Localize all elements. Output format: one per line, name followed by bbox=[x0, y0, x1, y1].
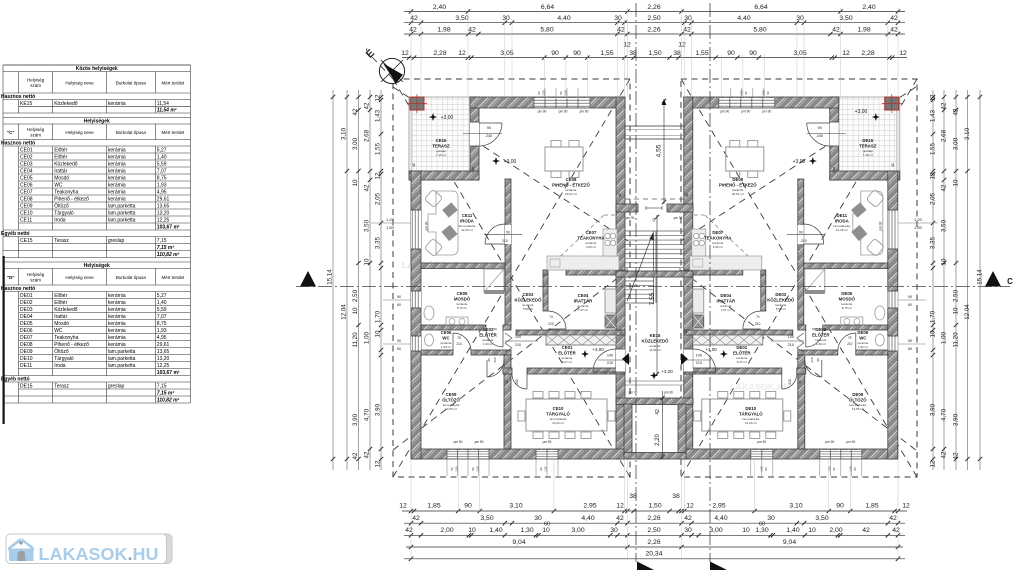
svg-text:Mosdó: Mosdó bbox=[54, 175, 69, 181]
svg-text:1,40: 1,40 bbox=[786, 527, 799, 534]
svg-text:9,04: 9,04 bbox=[512, 539, 525, 546]
svg-text:42: 42 bbox=[468, 26, 476, 33]
svg-text:210: 210 bbox=[456, 342, 462, 346]
internal dim 2,20 bbox=[662, 391, 664, 459]
svg-text:Pihenő - étkező: Pihenő - étkező bbox=[54, 342, 89, 348]
staircase bbox=[626, 230, 684, 232]
svg-text:3,00: 3,00 bbox=[352, 137, 359, 150]
svg-text:90: 90 bbox=[573, 50, 581, 57]
shower D bbox=[805, 269, 825, 292]
svg-text:90: 90 bbox=[727, 50, 735, 57]
svg-text:60: 60 bbox=[908, 303, 912, 307]
level mark +3,00 C living bbox=[492, 157, 500, 165]
svg-text:CE11: CE11 bbox=[20, 217, 32, 223]
wc bowl D bbox=[875, 334, 884, 346]
svg-text:1,70: 1,70 bbox=[930, 310, 937, 323]
svg-text:1,30: 1,30 bbox=[827, 466, 831, 472]
svg-text:DE03: DE03 bbox=[775, 292, 786, 297]
entry door panels (black) bbox=[622, 353, 629, 365]
table: helyiségek D title bbox=[2, 262, 4, 269]
svg-text:3,10: 3,10 bbox=[509, 503, 522, 510]
svg-text:4,40: 4,40 bbox=[581, 515, 594, 522]
svg-text:10: 10 bbox=[468, 527, 476, 534]
svg-text:KE15: KE15 bbox=[650, 333, 661, 338]
svg-text:90: 90 bbox=[397, 339, 401, 343]
svg-text:3,35: 3,35 bbox=[930, 236, 937, 249]
roof diagonal lines unit D bbox=[681, 79, 917, 477]
svg-text:13,65 m²: 13,65 m² bbox=[852, 407, 864, 411]
svg-text:11,54 m²: 11,54 m² bbox=[157, 108, 177, 114]
wall: C wc south bbox=[421, 350, 453, 355]
svg-text:12: 12 bbox=[458, 50, 466, 57]
svg-text:10: 10 bbox=[375, 330, 382, 337]
svg-text:210: 210 bbox=[493, 357, 497, 362]
svg-text:7,07 m²: 7,07 m² bbox=[578, 308, 588, 312]
svg-text:1,40: 1,40 bbox=[157, 300, 167, 306]
svg-text:7,07: 7,07 bbox=[157, 314, 167, 320]
dimension row B3 bbox=[404, 534, 905, 536]
svg-text:pm 90: pm 90 bbox=[475, 440, 484, 444]
svg-text:42: 42 bbox=[862, 527, 870, 534]
svg-text:pm 90: pm 90 bbox=[580, 110, 589, 114]
middle bridge (canopy between units) bbox=[625, 126, 684, 139]
svg-text:60: 60 bbox=[678, 268, 682, 272]
dimension row B5 bbox=[404, 558, 905, 560]
svg-text:13,65: 13,65 bbox=[157, 349, 170, 355]
svg-text:1,55: 1,55 bbox=[930, 142, 937, 155]
svg-text:kerámia: kerámia bbox=[108, 168, 126, 174]
svg-text:lam.parketta: lam.parketta bbox=[108, 356, 136, 362]
svg-text:CE01: CE01 bbox=[20, 147, 33, 153]
svg-text:2,40: 2,40 bbox=[862, 4, 875, 11]
svg-text:greslap: greslap bbox=[108, 383, 125, 389]
svg-text:3,00: 3,00 bbox=[953, 137, 960, 150]
svg-text:ELŐTÉR: ELŐTÉR bbox=[812, 333, 830, 338]
svg-text:12: 12 bbox=[375, 94, 382, 101]
svg-text:Egyéb nettó: Egyéb nettó bbox=[1, 377, 30, 383]
svg-text:Helyiségek: Helyiségek bbox=[84, 119, 110, 125]
wall: unit D inner exterior (stair side) bbox=[684, 97, 693, 459]
dimension row T1 bbox=[404, 11, 905, 13]
svg-text:1,40: 1,40 bbox=[489, 527, 502, 534]
svg-text:10: 10 bbox=[742, 527, 750, 534]
svg-text:90: 90 bbox=[487, 126, 491, 130]
svg-text:1,93 m²: 1,93 m² bbox=[441, 345, 451, 349]
svg-text:210: 210 bbox=[607, 361, 613, 365]
door: wc D bbox=[855, 333, 857, 351]
level mark +3,00 C entry bbox=[581, 350, 589, 358]
wall: D wc south bbox=[856, 350, 888, 355]
svg-text:75: 75 bbox=[457, 336, 461, 340]
svg-text:90: 90 bbox=[812, 327, 816, 331]
svg-text:CE03: CE03 bbox=[20, 161, 33, 167]
svg-text:CE05: CE05 bbox=[457, 291, 468, 296]
svg-text:1,85: 1,85 bbox=[427, 503, 440, 510]
svg-text:5,27: 5,27 bbox=[157, 147, 167, 153]
svg-text:4,95 m²: 4,95 m² bbox=[713, 245, 723, 249]
dimension row B2 bbox=[404, 522, 905, 524]
svg-text:90: 90 bbox=[471, 467, 475, 471]
svg-text:1,40 m²: 1,40 m² bbox=[816, 342, 826, 346]
svg-text:1,50: 1,50 bbox=[761, 90, 765, 96]
svg-text:2,05: 2,05 bbox=[930, 192, 937, 205]
svg-text:12: 12 bbox=[678, 42, 686, 49]
svg-text:Hasznos nettó: Hasznos nettó bbox=[1, 141, 35, 147]
svg-text:Irattár: Irattár bbox=[54, 168, 67, 174]
level mark +3,00 D living bbox=[809, 157, 817, 165]
svg-text:WC: WC bbox=[54, 182, 63, 188]
svg-text:TÁRGYALÓ: TÁRGYALÓ bbox=[546, 412, 570, 417]
logo house icon bbox=[8, 539, 21, 552]
svg-text:7,15: 7,15 bbox=[157, 383, 167, 389]
svg-text:pm 90: pm 90 bbox=[674, 216, 683, 220]
wall: C eloter south e bbox=[527, 368, 625, 374]
svg-text:1,30: 1,30 bbox=[759, 466, 763, 472]
svg-text:6,64: 6,64 bbox=[754, 4, 767, 11]
svg-text:1,93: 1,93 bbox=[157, 328, 167, 334]
svg-text:2,26: 2,26 bbox=[647, 539, 660, 546]
svg-text:42: 42 bbox=[364, 451, 371, 458]
window: unit D west x3 bbox=[888, 210, 898, 249]
svg-text:MOSDÓ: MOSDÓ bbox=[454, 297, 471, 302]
door: wc C bbox=[452, 333, 454, 351]
svg-text:12: 12 bbox=[401, 50, 409, 57]
level mark +3,00 D entry bbox=[720, 350, 728, 358]
dining table D bbox=[726, 147, 764, 171]
wall: D irattar west bbox=[761, 275, 766, 311]
column at terrace CE15 corner bbox=[410, 97, 424, 110]
wall: unit D terrace east bbox=[830, 97, 839, 180]
svg-text:WC: WC bbox=[54, 328, 63, 334]
svg-text:29,61: 29,61 bbox=[157, 342, 170, 348]
svg-text:CE10: CE10 bbox=[20, 210, 33, 216]
svg-text:42: 42 bbox=[616, 515, 624, 522]
svg-text:pm 90: pm 90 bbox=[757, 440, 766, 444]
svg-text:Terasz: Terasz bbox=[54, 383, 69, 389]
svg-text:12: 12 bbox=[375, 460, 382, 467]
svg-text:CE06: CE06 bbox=[20, 182, 33, 188]
svg-text:1,93 m²: 1,93 m² bbox=[858, 345, 868, 349]
svg-text:Iroda: Iroda bbox=[54, 217, 66, 223]
svg-text:+3,00: +3,00 bbox=[504, 159, 517, 165]
table: CE15 row bbox=[2, 237, 4, 244]
svg-text:Helyiség: Helyiség bbox=[27, 127, 45, 132]
svg-text:5,80: 5,80 bbox=[753, 26, 766, 33]
svg-text:12: 12 bbox=[375, 172, 382, 179]
svg-text:38: 38 bbox=[629, 50, 637, 57]
svg-text:4,70: 4,70 bbox=[941, 408, 948, 421]
svg-text:Mért terület: Mért terület bbox=[161, 275, 185, 280]
canopy dashed line bbox=[625, 198, 684, 200]
svg-text:30: 30 bbox=[610, 527, 618, 534]
KE15 threshold bbox=[625, 380, 684, 382]
table: helyiségek C title bbox=[2, 118, 4, 125]
svg-text:90: 90 bbox=[487, 358, 491, 362]
svg-text:szám: szám bbox=[30, 133, 41, 138]
svg-text:DE03: DE03 bbox=[20, 307, 33, 313]
door: targyalo C bbox=[526, 374, 528, 389]
svg-text:ÖLTÖZŐ: ÖLTÖZŐ bbox=[849, 398, 867, 403]
svg-text:KE15: KE15 bbox=[20, 101, 32, 107]
svg-text:60: 60 bbox=[908, 347, 912, 351]
stair landing slab edge bbox=[616, 271, 693, 277]
svg-text:3,50: 3,50 bbox=[839, 15, 852, 22]
svg-text:90: 90 bbox=[539, 467, 543, 471]
svg-text:DE05: DE05 bbox=[20, 321, 33, 327]
svg-text:2,68: 2,68 bbox=[941, 129, 948, 142]
svg-text:DE04: DE04 bbox=[20, 314, 33, 320]
wall: unit C inner exterior (stair side) bbox=[616, 97, 625, 459]
desks iroda C bbox=[428, 191, 458, 255]
wall: middle north w bbox=[616, 204, 638, 212]
svg-text:pm 30: pm 30 bbox=[664, 391, 673, 395]
svg-text:ELŐTÉR: ELŐTÉR bbox=[733, 351, 751, 356]
wall: porch south bbox=[624, 453, 686, 460]
door: targyalo D bbox=[781, 374, 783, 389]
svg-text:Pihenő - étkező: Pihenő - étkező bbox=[54, 196, 89, 202]
svg-text:2,00: 2,00 bbox=[829, 527, 842, 534]
svg-text:IRODA: IRODA bbox=[460, 219, 474, 224]
svg-text:kerámia: kerámia bbox=[108, 101, 126, 107]
svg-text:Burkolat típusa: Burkolat típusa bbox=[116, 275, 147, 280]
svg-text:2,26: 2,26 bbox=[647, 515, 660, 522]
table: header D bbox=[2, 269, 4, 286]
wall: middle north e bbox=[667, 204, 693, 212]
svg-text:1,98: 1,98 bbox=[437, 26, 450, 33]
svg-text:5,27: 5,27 bbox=[157, 293, 167, 299]
svg-text:90: 90 bbox=[397, 295, 401, 299]
wall: middle south bbox=[616, 398, 693, 405]
svg-text:4,95 m²: 4,95 m² bbox=[586, 245, 596, 249]
svg-text:90: 90 bbox=[551, 50, 559, 57]
wall: unit C south exterior bbox=[411, 449, 625, 459]
svg-text:7,55: 7,55 bbox=[649, 292, 656, 305]
svg-text:10: 10 bbox=[352, 307, 359, 314]
svg-text:210: 210 bbox=[548, 322, 554, 326]
compass diagonal extension bbox=[372, 57, 393, 79]
svg-text:IRATTÁR: IRATTÁR bbox=[574, 299, 593, 304]
svg-text:4,55: 4,55 bbox=[656, 144, 663, 157]
svg-text:1,20: 1,20 bbox=[471, 167, 475, 173]
svg-text:kerámia: kerámia bbox=[108, 314, 126, 320]
roof diagonal lines unit C bbox=[393, 79, 630, 477]
svg-text:42: 42 bbox=[685, 193, 689, 197]
svg-text:29,61 m²: 29,61 m² bbox=[565, 192, 577, 196]
svg-text:DE07: DE07 bbox=[20, 335, 33, 341]
svg-text:szám: szám bbox=[30, 278, 41, 283]
svg-text:1,40 m²: 1,40 m² bbox=[483, 342, 493, 346]
svg-text:42: 42 bbox=[891, 163, 895, 167]
svg-text:CE11: CE11 bbox=[462, 213, 473, 218]
svg-text:29,61: 29,61 bbox=[157, 196, 170, 202]
svg-text:30: 30 bbox=[796, 15, 804, 22]
svg-text:4,95: 4,95 bbox=[157, 189, 167, 195]
svg-text:DE11: DE11 bbox=[837, 213, 848, 218]
svg-text:TEAKONYHA: TEAKONYHA bbox=[704, 236, 731, 241]
table: DE rows bbox=[2, 292, 4, 299]
svg-text:42: 42 bbox=[655, 409, 661, 415]
svg-text:110,82 m²: 110,82 m² bbox=[157, 397, 180, 403]
svg-text:5,59 m²: 5,59 m² bbox=[523, 307, 533, 311]
wall: C eloter south w bbox=[503, 368, 512, 374]
door: entry C bbox=[616, 349, 625, 372]
svg-text:42: 42 bbox=[352, 452, 359, 459]
svg-text:3,90: 3,90 bbox=[375, 403, 382, 416]
svg-text:kerámia: kerámia bbox=[108, 154, 126, 160]
kitchen counter C bbox=[547, 256, 619, 270]
level mark +3,00 C terrace bbox=[429, 113, 437, 121]
svg-text:pm 90: pm 90 bbox=[846, 440, 855, 444]
dimension row T3 bbox=[404, 33, 905, 35]
svg-text:11,20: 11,20 bbox=[953, 332, 960, 348]
svg-text:30: 30 bbox=[502, 15, 510, 22]
sanitary mosdo D bbox=[875, 306, 885, 320]
svg-text:10: 10 bbox=[352, 179, 359, 186]
svg-text:IRODA: IRODA bbox=[835, 219, 849, 224]
table: header C bbox=[2, 124, 4, 140]
svg-text:+3,00: +3,00 bbox=[592, 347, 604, 352]
svg-text:Mért terület: Mért terület bbox=[161, 80, 185, 85]
svg-text:42: 42 bbox=[890, 15, 898, 22]
svg-text:Öltöző: Öltöző bbox=[54, 202, 69, 209]
door: iroda C bbox=[505, 225, 511, 244]
wall: unit C north exterior bbox=[470, 97, 625, 108]
svg-text:3,90: 3,90 bbox=[930, 403, 937, 416]
svg-text:Hasznos nettó: Hasznos nettó bbox=[1, 286, 35, 292]
svg-text:szám: szám bbox=[30, 83, 41, 88]
svg-text:Mosdó: Mosdó bbox=[54, 321, 69, 327]
svg-text:90: 90 bbox=[766, 91, 770, 95]
svg-text:90: 90 bbox=[559, 91, 563, 95]
svg-text:210: 210 bbox=[515, 343, 521, 347]
svg-text:42: 42 bbox=[832, 26, 840, 33]
svg-text:20,34: 20,34 bbox=[645, 550, 662, 557]
svg-text:5,27 m²: 5,27 m² bbox=[562, 360, 572, 364]
table: hasznos nettó C bbox=[2, 140, 4, 147]
svg-text:DE01: DE01 bbox=[20, 293, 33, 299]
svg-text:42: 42 bbox=[409, 26, 417, 33]
svg-text:12,25 m²: 12,25 m² bbox=[836, 228, 848, 232]
svg-text:12: 12 bbox=[616, 503, 624, 510]
svg-text:pm 90: pm 90 bbox=[626, 216, 635, 220]
svg-text:12: 12 bbox=[930, 460, 937, 467]
vertical axis line 1 bbox=[635, 3, 637, 562]
wall: D eloter2 south bbox=[798, 350, 838, 355]
svg-text:210: 210 bbox=[515, 379, 519, 385]
axis marker right with label C bbox=[985, 271, 1001, 287]
svg-text:8,75: 8,75 bbox=[157, 175, 167, 181]
svg-text:2,00: 2,00 bbox=[440, 527, 453, 534]
svg-text:42: 42 bbox=[352, 108, 359, 115]
door: irattar C bbox=[548, 328, 566, 330]
table: egyéb nettó C bbox=[2, 230, 4, 237]
svg-text:2,40: 2,40 bbox=[433, 4, 446, 11]
svg-text:2,50: 2,50 bbox=[647, 527, 660, 534]
door: oltozo C bbox=[486, 360, 488, 377]
wall: D iroda east bbox=[798, 179, 804, 327]
wall: C mosdo/wc bbox=[421, 325, 486, 330]
svg-text:3,00: 3,00 bbox=[571, 527, 584, 534]
svg-text:12,25 m²: 12,25 m² bbox=[461, 228, 473, 232]
svg-text:Hasznos nettó: Hasznos nettó bbox=[1, 94, 35, 100]
svg-text:+3,00: +3,00 bbox=[855, 109, 868, 115]
svg-text:Közös helyiségek: Közös helyiségek bbox=[76, 66, 118, 72]
svg-text:1,55: 1,55 bbox=[375, 142, 382, 155]
svg-text:42: 42 bbox=[364, 184, 371, 191]
svg-text:Irattár: Irattár bbox=[54, 314, 67, 320]
door: irattar D bbox=[743, 328, 761, 330]
svg-text:90: 90 bbox=[832, 467, 836, 471]
svg-text:É: É bbox=[363, 46, 377, 60]
svg-text:8,75 m²: 8,75 m² bbox=[457, 306, 467, 310]
svg-text:210: 210 bbox=[801, 239, 807, 243]
svg-text:42: 42 bbox=[364, 102, 371, 109]
svg-text:Burkolat típusa: Burkolat típusa bbox=[116, 130, 147, 135]
svg-text:DE05: DE05 bbox=[841, 291, 852, 296]
wall: C iroda/mosdo bbox=[421, 263, 511, 269]
svg-text:7,15 m²: 7,15 m² bbox=[157, 245, 175, 251]
svg-text:1,30: 1,30 bbox=[455, 466, 459, 472]
kitchen counter D bbox=[690, 256, 762, 270]
svg-text:kerámia: kerámia bbox=[108, 147, 126, 153]
svg-text:12: 12 bbox=[686, 503, 694, 510]
svg-text:13,65: 13,65 bbox=[157, 203, 170, 209]
svg-text:74: 74 bbox=[756, 315, 760, 319]
svg-text:2,20: 2,20 bbox=[655, 434, 661, 446]
svg-text:13,20: 13,20 bbox=[157, 356, 170, 362]
targyalo table D bbox=[702, 399, 783, 431]
svg-text:kerámia: kerámia bbox=[108, 300, 126, 306]
svg-text:3,50: 3,50 bbox=[364, 219, 371, 232]
svg-text:12: 12 bbox=[842, 50, 850, 57]
wall: C iroda east bbox=[505, 179, 511, 327]
svg-text:Tárgyaló: Tárgyaló bbox=[54, 356, 74, 362]
svg-text:7,07: 7,07 bbox=[157, 168, 167, 174]
svg-text:210: 210 bbox=[788, 343, 794, 347]
svg-text:3,05: 3,05 bbox=[793, 50, 806, 57]
svg-text:DE08: DE08 bbox=[732, 177, 743, 182]
window: unit C west x3 bbox=[411, 210, 421, 249]
svg-text:Helyiség: Helyiség bbox=[27, 272, 45, 277]
svg-text:Közlekedő: Közlekedő bbox=[54, 161, 78, 167]
svg-text:Helyiség neve: Helyiség neve bbox=[65, 80, 94, 85]
svg-text:PIHENŐ - ÉTKEZŐ: PIHENŐ - ÉTKEZŐ bbox=[719, 183, 757, 188]
svg-text:kerámia: kerámia bbox=[108, 328, 126, 334]
wall: C irattar nw stub bbox=[543, 270, 548, 275]
svg-text:8,75 m²: 8,75 m² bbox=[842, 306, 852, 310]
svg-text:kerámia: kerámia bbox=[108, 175, 126, 181]
svg-text:90: 90 bbox=[908, 295, 912, 299]
wall: unit D south exterior bbox=[684, 449, 898, 459]
svg-text:Helyiség neve: Helyiség neve bbox=[65, 275, 94, 280]
wall: C oltozo east bbox=[504, 355, 511, 449]
svg-text:kerámia: kerámia bbox=[108, 293, 126, 299]
svg-text:3,00: 3,00 bbox=[709, 527, 722, 534]
svg-text:pm 90: pm 90 bbox=[559, 110, 568, 114]
svg-text:7,15 m²: 7,15 m² bbox=[863, 153, 873, 157]
svg-text:CE08: CE08 bbox=[20, 196, 33, 202]
svg-text:Terasz: Terasz bbox=[54, 238, 69, 244]
terrace CE15 tiled floor bbox=[409, 97, 479, 180]
door: mosdo D bbox=[805, 330, 807, 347]
svg-text:90: 90 bbox=[744, 91, 748, 95]
svg-text:5,59: 5,59 bbox=[157, 307, 167, 313]
svg-text:Tárgyaló: Tárgyaló bbox=[54, 210, 74, 216]
svg-text:1,30: 1,30 bbox=[520, 527, 533, 534]
svg-text:42: 42 bbox=[618, 193, 622, 197]
svg-text:3,50: 3,50 bbox=[480, 515, 493, 522]
door: iroda D bbox=[798, 225, 804, 244]
